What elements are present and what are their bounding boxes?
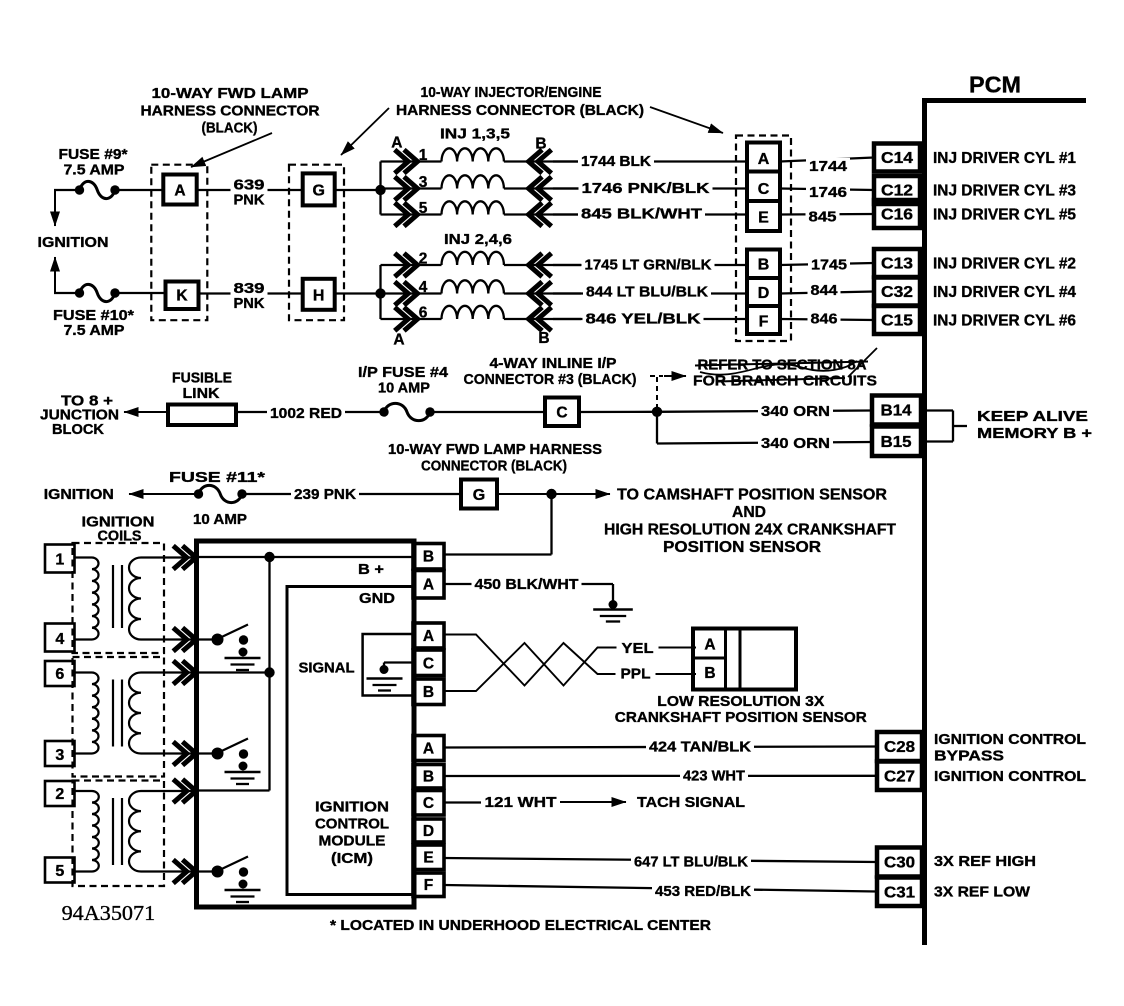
wire B+ vertical bus <box>268 557 270 791</box>
svg-text:C30: C30 <box>884 855 915 872</box>
coil terminal 3 <box>45 741 75 766</box>
svg-text:G: G <box>473 487 485 504</box>
wire 239 PNK <box>246 493 461 495</box>
svg-text:450 BLK/WHT: 450 BLK/WHT <box>475 577 579 593</box>
wire coil 2 to B-side arrow <box>504 264 581 266</box>
svg-text:844: 844 <box>811 283 838 299</box>
svg-text:4-WAY INLINE I/P: 4-WAY INLINE I/P <box>490 356 617 372</box>
svg-text:INJ 2,4,6: INJ 2,4,6 <box>444 232 512 248</box>
transformer primary winding <box>92 791 99 872</box>
fuse F10 7.5A <box>75 288 84 297</box>
transformer secondary winding <box>129 673 141 754</box>
node B+ junction top <box>264 552 274 562</box>
svg-text:TO CAMSHAFT POSITION SENSOR: TO CAMSHAFT POSITION SENSOR <box>617 486 887 503</box>
ICM outer box <box>197 541 415 907</box>
svg-text:SIGNAL: SIGNAL <box>299 661 355 677</box>
svg-text:340 ORN: 340 ORN <box>761 436 830 452</box>
svg-text:A: A <box>393 332 404 349</box>
svg-text:10-WAY FWD LAMP: 10-WAY FWD LAMP <box>152 86 309 102</box>
svg-text:B14: B14 <box>881 403 912 420</box>
connector pin C (engine harness) <box>747 172 780 202</box>
svg-text:IGNITION: IGNITION <box>315 798 389 815</box>
PCM pin B15 <box>872 427 921 457</box>
wire secondary bottom to ICM <box>141 638 199 640</box>
coil pack dashed outline 3 <box>73 781 165 887</box>
wire signal ground from pin C <box>384 661 413 663</box>
svg-text:B +: B + <box>358 562 384 578</box>
svg-text:FUSE #10*: FUSE #10* <box>53 308 134 324</box>
ICM pin C (3) <box>413 650 444 676</box>
ICM pin B (0) <box>413 544 444 570</box>
wire coil 3 to B-side arrow <box>504 187 581 189</box>
svg-text:HARNESS CONNECTOR: HARNESS CONNECTOR <box>141 104 321 120</box>
svg-text:K: K <box>176 288 188 305</box>
svg-text:846 YEL/BLK: 846 YEL/BLK <box>586 312 702 328</box>
wire primary top <box>75 671 93 673</box>
transformer secondary winding <box>129 791 141 871</box>
connector pin A (engine harness) <box>747 143 780 172</box>
wire 340 ORN to B15 <box>657 442 872 444</box>
svg-text:845 BLK/WHT: 845 BLK/WHT <box>581 207 702 223</box>
wire 844 pin to C32 <box>780 292 874 294</box>
PCM pin B14 <box>872 396 921 425</box>
coil terminal 4 <box>45 624 75 652</box>
svg-text:844 LT BLU/BLK: 844 LT BLU/BLK <box>586 285 709 301</box>
svg-text:MODULE: MODULE <box>319 832 386 849</box>
node B+ junction mid <box>264 667 274 677</box>
svg-text:E: E <box>758 210 769 227</box>
svg-text:A: A <box>423 628 434 645</box>
wire secondary top to ICM <box>141 671 199 673</box>
ICM pin B (4) <box>413 679 444 705</box>
wire coil 6 to B-side arrow <box>504 318 581 320</box>
wire secondary top to ICM <box>141 790 199 792</box>
svg-text:INJ 1,3,5: INJ 1,3,5 <box>440 127 510 143</box>
svg-text:B: B <box>758 257 770 274</box>
svg-text:AND: AND <box>732 504 766 521</box>
driver switch 3 <box>197 870 214 872</box>
svg-text:239 PNK: 239 PNK <box>294 487 357 503</box>
node junction to ICM B+ <box>546 489 556 499</box>
wire coil 1 to B-side arrow <box>504 160 581 162</box>
injector coil 2 <box>442 252 504 265</box>
PCM pin C12 <box>874 176 920 204</box>
PCM pin C13 <box>874 249 920 277</box>
coil pack dashed outline 2 <box>73 657 165 777</box>
svg-text:CONNECTOR #3 (BLACK): CONNECTOR #3 (BLACK) <box>464 372 637 388</box>
coil terminal 2 <box>45 781 75 806</box>
label pointer arrow left to G/H <box>341 108 389 155</box>
wire primary top <box>75 556 93 558</box>
ICM inner box <box>287 587 413 895</box>
node ground dot 450 <box>609 600 618 609</box>
transformer core <box>112 565 114 628</box>
svg-text:LOW RESOLUTION 3X: LOW RESOLUTION 3X <box>657 694 824 710</box>
svg-text:* LOCATED IN UNDERHOOD ELECTRI: * LOCATED IN UNDERHOOD ELECTRICAL CENTER <box>330 918 712 934</box>
svg-text:A: A <box>423 741 434 758</box>
svg-text:B: B <box>538 330 549 347</box>
keep alive memory bracket <box>921 409 953 411</box>
svg-text:B: B <box>704 665 715 682</box>
svg-text:453 RED/BLK: 453 RED/BLK <box>655 884 752 900</box>
svg-text:INJ DRIVER CYL #4: INJ DRIVER CYL #4 <box>933 284 1076 301</box>
svg-text:340 ORN: 340 ORN <box>761 404 830 420</box>
connector G/H dashed outline <box>289 165 344 321</box>
wire injector line 1 <box>381 160 442 162</box>
svg-text:IGNITION: IGNITION <box>38 235 109 251</box>
svg-text:10-WAY INJECTOR/ENGINE: 10-WAY INJECTOR/ENGINE <box>421 85 602 101</box>
svg-text:C13: C13 <box>881 256 913 273</box>
svg-text:1745 LT GRN/BLK: 1745 LT GRN/BLK <box>585 258 713 274</box>
svg-text:F: F <box>424 877 433 894</box>
dashed stub to branch circuits note <box>656 377 658 409</box>
wire fuse10 to connector K <box>119 292 165 294</box>
svg-text:C32: C32 <box>881 284 913 301</box>
ICM pin E (9) <box>413 845 444 870</box>
svg-text:3X REF HIGH: 3X REF HIGH <box>934 854 1036 870</box>
wire coil 5 to B-side arrow <box>504 213 581 215</box>
wire 844 LT BLU/BLK <box>553 292 747 294</box>
wire fuse9 to connector A <box>119 189 163 191</box>
wire 340 ORN to B14 <box>657 411 872 412</box>
svg-text:CONTROL: CONTROL <box>315 815 389 832</box>
wire 839 PNK <box>199 292 303 294</box>
wire G to branch node <box>335 189 381 191</box>
svg-text:PPL: PPL <box>621 667 651 683</box>
svg-text:IGNITION CONTROL: IGNITION CONTROL <box>934 769 1086 785</box>
svg-text:FUSIBLE: FUSIBLE <box>172 371 232 387</box>
wire 453 RED/BLK <box>444 885 877 892</box>
injector harness connector dashed outline <box>736 136 791 342</box>
label pointer arrow to A/K connector <box>191 133 272 167</box>
svg-text:C28: C28 <box>884 739 915 756</box>
svg-text:647 LT BLU/BLK: 647 LT BLU/BLK <box>634 855 749 871</box>
driver switch 1 <box>197 638 214 640</box>
wire injector line 6 <box>381 318 442 320</box>
coil terminal 6 <box>45 661 75 686</box>
wire injector line 4 <box>381 292 442 294</box>
svg-text:2: 2 <box>55 786 64 803</box>
wire ignition drop (down arrow) <box>54 190 56 226</box>
wire 647 LT BLU/BLK <box>444 858 877 862</box>
svg-text:1746 PNK/BLK: 1746 PNK/BLK <box>582 181 711 197</box>
svg-text:3: 3 <box>419 174 428 191</box>
svg-text:B: B <box>423 684 434 701</box>
svg-text:H: H <box>313 287 325 304</box>
wire 1745 pin to C13 <box>780 263 874 265</box>
wire primary top <box>75 790 93 792</box>
wire secondary top to ICM <box>141 556 199 558</box>
svg-text:3: 3 <box>55 747 64 764</box>
svg-text:C16: C16 <box>881 207 913 224</box>
wire 450 BLK/WHT <box>444 583 613 585</box>
svg-text:10 AMP: 10 AMP <box>378 381 430 397</box>
wire coil3 feed <box>197 789 270 791</box>
low resolution 3x crankshaft position sensor <box>693 629 796 690</box>
svg-text:YEL: YEL <box>622 641 654 657</box>
svg-text:1: 1 <box>419 147 428 164</box>
svg-text:4: 4 <box>419 279 428 296</box>
wire H to branch node <box>335 292 381 294</box>
svg-text:7.5 AMP: 7.5 AMP <box>64 163 125 179</box>
ICM pin A (2) <box>413 623 444 648</box>
svg-text:1: 1 <box>55 551 64 568</box>
svg-text:INJ DRIVER CYL #3: INJ DRIVER CYL #3 <box>933 183 1076 200</box>
svg-text:CRANKSHAFT POSITION SENSOR: CRANKSHAFT POSITION SENSOR <box>615 710 868 726</box>
svg-text:LINK: LINK <box>183 386 221 402</box>
wire to ignition (left arrow) <box>129 493 197 495</box>
wire injector line 3 <box>381 187 442 189</box>
PCM left edge <box>922 98 927 945</box>
wire fuse4 to connector C <box>434 411 545 413</box>
svg-text:846: 846 <box>811 312 838 328</box>
wire to junction block (left arrow) <box>124 411 168 413</box>
wire secondary bottom to ICM <box>141 752 199 754</box>
wire G to camshaft sensors (arrow) <box>497 493 610 495</box>
connector pin K <box>166 282 199 310</box>
wire 1002 RED <box>236 411 384 413</box>
svg-text:CONNECTOR (BLACK): CONNECTOR (BLACK) <box>421 459 567 475</box>
connector pin A <box>163 175 196 205</box>
connector pin G <box>303 173 335 205</box>
svg-text:I/P FUSE #4: I/P FUSE #4 <box>358 365 448 381</box>
ground symbol 450 <box>593 608 633 611</box>
wire primary bottom <box>75 638 93 640</box>
fuse F9 7.5A <box>75 185 84 194</box>
connector pin G (fwd lamp) <box>461 480 497 509</box>
transformer primary winding <box>92 558 99 640</box>
node 340 ORN junction <box>652 407 662 417</box>
wire injector line 5 <box>381 213 442 215</box>
svg-text:C14: C14 <box>881 150 913 167</box>
wire 1746 PNK/BLK <box>553 187 747 189</box>
svg-text:3X REF LOW: 3X REF LOW <box>934 885 1030 901</box>
svg-text:D: D <box>758 285 770 302</box>
wire 1745 LT GRN/BLK <box>553 264 747 266</box>
svg-text:C15: C15 <box>881 313 913 330</box>
wire branch vertical 1-3-5 <box>379 162 381 215</box>
twisted pair wire to sensor pin A (YEL) <box>444 643 696 691</box>
wire 1744 BLK <box>553 160 747 162</box>
svg-text:6: 6 <box>55 666 64 683</box>
svg-text:7.5 AMP: 7.5 AMP <box>64 323 125 339</box>
ICM pin F (10) <box>413 873 444 897</box>
wire primary bottom <box>75 870 93 872</box>
svg-text:A: A <box>423 577 434 594</box>
label SIGNAL <box>296 659 358 675</box>
connector pin B (engine harness) <box>747 250 780 279</box>
svg-text:C: C <box>758 181 770 198</box>
svg-text:PCM: PCM <box>969 71 1021 97</box>
svg-text:2: 2 <box>419 251 428 268</box>
svg-text:BYPASS: BYPASS <box>934 749 1004 765</box>
wire secondary bottom to ICM <box>141 870 199 872</box>
arrow to branch circuits note <box>664 375 686 377</box>
svg-text:5: 5 <box>419 200 428 217</box>
wire C to 340 ORN node <box>579 411 657 414</box>
svg-text:INJ DRIVER CYL #2: INJ DRIVER CYL #2 <box>933 256 1076 273</box>
node branch junction G <box>375 185 385 195</box>
wire fuse9 left stub <box>54 189 76 191</box>
svg-text:A: A <box>704 637 715 654</box>
wire 423 WHT <box>444 775 877 778</box>
ICM pin A (1) <box>413 571 444 599</box>
svg-text:C27: C27 <box>884 768 915 785</box>
svg-text:94A35071: 94A35071 <box>62 901 156 925</box>
wire fuse10 left stub <box>54 292 76 294</box>
transformer core <box>112 798 114 865</box>
connector pin F (engine harness) <box>747 306 780 334</box>
svg-text:(ICM): (ICM) <box>331 850 373 867</box>
svg-text:TACH SIGNAL: TACH SIGNAL <box>637 795 745 811</box>
ICM pin C (7) <box>413 791 444 816</box>
signal ground box <box>363 634 413 696</box>
wire 1746 pin to C12 <box>780 189 874 191</box>
svg-text:HIGH RESOLUTION 24X CRANKSHAFT: HIGH RESOLUTION 24X CRANKSHAFT <box>604 521 896 538</box>
svg-text:F: F <box>759 313 769 330</box>
PCM pin C28 <box>877 732 922 761</box>
wire branch vertical 2-4-6 <box>379 265 381 319</box>
svg-text:(BLACK): (BLACK) <box>202 121 258 137</box>
injector coil 1 <box>442 148 504 161</box>
injector coil 4 <box>442 280 504 293</box>
svg-text:A: A <box>174 182 185 199</box>
svg-text:HARNESS CONNECTOR (BLACK): HARNESS CONNECTOR (BLACK) <box>396 103 644 119</box>
svg-text:C: C <box>423 795 434 812</box>
svg-text:INJ DRIVER CYL #5: INJ DRIVER CYL #5 <box>933 207 1076 224</box>
PCM top edge <box>922 98 1086 103</box>
PCM pin C32 <box>874 278 920 306</box>
svg-text:423 WHT: 423 WHT <box>683 769 745 785</box>
svg-text:G: G <box>312 183 324 200</box>
svg-text:BLOCK: BLOCK <box>52 422 105 438</box>
connector pin E (engine harness) <box>747 201 780 231</box>
svg-text:B: B <box>423 769 434 786</box>
svg-text:A: A <box>758 151 770 168</box>
svg-text:D: D <box>423 823 434 840</box>
connector pin H <box>303 279 335 310</box>
ICM pin B (6) <box>413 765 444 789</box>
connector pin C (4-way inline) <box>545 398 579 427</box>
transformer core <box>112 680 114 747</box>
injector coil 6 <box>442 306 504 319</box>
wire 121 WHT tach signal <box>444 801 481 803</box>
svg-text:5: 5 <box>55 863 64 880</box>
signal ground symbol <box>367 677 403 680</box>
svg-text:B15: B15 <box>881 434 912 451</box>
svg-text:B: B <box>423 549 434 566</box>
fuse F4 I/P 10A <box>379 407 388 416</box>
wire ignition rise (up arrow) <box>54 257 56 293</box>
wire coil2 feed <box>197 671 270 673</box>
PCM pin C16 <box>874 200 920 228</box>
wire B+ bus inside ICM <box>197 556 413 558</box>
svg-text:1744: 1744 <box>809 159 847 175</box>
coil terminal 1 <box>45 545 75 573</box>
coil terminal 5 <box>45 858 75 883</box>
svg-text:6: 6 <box>419 305 428 322</box>
wire 424 TAN/BLK <box>444 747 877 748</box>
ICM pin D (8) <box>413 819 444 842</box>
svg-text:FUSE #9*: FUSE #9* <box>59 147 128 163</box>
transformer primary winding <box>92 673 99 754</box>
PCM pin C14 <box>874 144 920 172</box>
svg-text:1002 RED: 1002 RED <box>270 406 342 422</box>
svg-text:KEEP ALIVE: KEEP ALIVE <box>977 409 1088 425</box>
wire 845 pin to C16 <box>780 213 874 216</box>
svg-text:MEMORY B +: MEMORY B + <box>977 426 1092 442</box>
svg-text:1745: 1745 <box>811 258 847 274</box>
wire 846 pin to C15 <box>780 319 874 320</box>
node branch junction H <box>375 288 385 298</box>
injector coil 3 <box>442 175 504 188</box>
connector A/K dashed outline <box>151 165 207 321</box>
wire junction down to ICM pin B <box>550 494 552 555</box>
PCM pin C31 <box>877 878 922 907</box>
svg-text:1746: 1746 <box>809 185 847 201</box>
wire primary bottom <box>75 752 93 754</box>
connector pin D (engine harness) <box>747 278 780 306</box>
svg-text:C: C <box>556 405 567 422</box>
svg-text:10 AMP: 10 AMP <box>193 512 247 528</box>
PCM pin C15 <box>874 306 920 334</box>
svg-text:IGNITION: IGNITION <box>44 487 114 503</box>
fuse F11 10A <box>194 489 203 498</box>
svg-text:PNK: PNK <box>234 296 266 312</box>
svg-text:C31: C31 <box>884 884 915 901</box>
wire 846 YEL/BLK <box>553 318 747 320</box>
svg-text:INJ DRIVER CYL #6: INJ DRIVER CYL #6 <box>933 313 1076 330</box>
svg-text:IGNITION CONTROL: IGNITION CONTROL <box>934 732 1086 748</box>
svg-text:4: 4 <box>55 631 64 648</box>
injector coil 5 <box>442 201 504 214</box>
PCM pin C30 <box>877 848 922 877</box>
wire 845 BLK/WHT <box>553 213 747 215</box>
svg-text:E: E <box>423 850 433 867</box>
wire 340 ORN branch down <box>656 412 658 444</box>
driver switch 2 <box>197 752 214 754</box>
svg-text:C: C <box>423 656 434 673</box>
fusible link <box>168 405 236 426</box>
svg-text:C12: C12 <box>881 183 913 200</box>
coil pack dashed outline 1 <box>73 543 165 653</box>
svg-text:GND: GND <box>359 591 395 607</box>
ICM pin A (5) <box>413 736 444 761</box>
svg-text:121 WHT: 121 WHT <box>485 795 557 811</box>
transformer secondary winding <box>129 558 141 640</box>
node signal ground dot <box>380 665 389 674</box>
svg-text:845: 845 <box>809 210 837 226</box>
svg-text:424 TAN/BLK: 424 TAN/BLK <box>649 740 752 756</box>
svg-text:PNK: PNK <box>234 193 266 209</box>
svg-text:POSITION SENSOR: POSITION SENSOR <box>663 539 821 556</box>
label pointer arrow right to injector harness connector <box>650 107 723 133</box>
wire injector line 2 <box>381 264 442 266</box>
svg-text:FUSE #11*: FUSE #11* <box>169 470 265 486</box>
twisted pair wire to sensor pin B (PPL) <box>444 635 696 686</box>
svg-text:10-WAY FWD LAMP HARNESS: 10-WAY FWD LAMP HARNESS <box>388 442 602 458</box>
wire coil 4 to B-side arrow <box>504 292 581 294</box>
PCM pin C27 <box>877 762 922 791</box>
svg-text:1744 BLK: 1744 BLK <box>581 154 652 170</box>
svg-text:INJ DRIVER CYL #1: INJ DRIVER CYL #1 <box>933 150 1076 167</box>
wire 1744 pin to C14 <box>780 158 874 162</box>
wire 639 PNK <box>197 189 303 191</box>
